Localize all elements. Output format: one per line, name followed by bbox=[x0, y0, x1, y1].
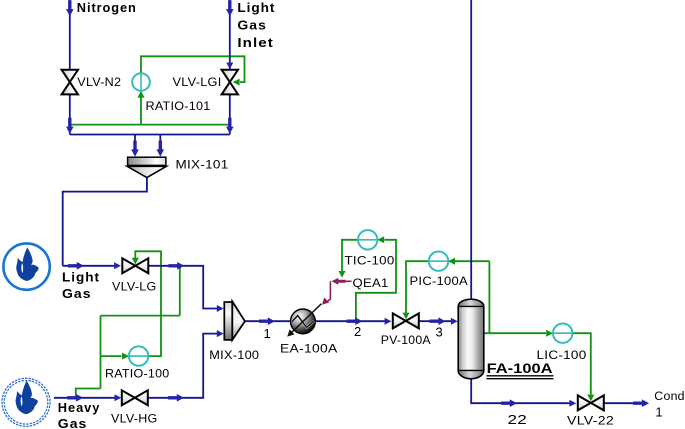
svg-text:Heavy: Heavy bbox=[58, 401, 101, 415]
wire RATIO-100 sense vertical bbox=[100, 316, 102, 389]
wire PIC-100A sense vertical bbox=[488, 261, 490, 333]
svg-text:MIX-100: MIX-100 bbox=[209, 348, 259, 362]
arrow into MIX-101 port2 bbox=[157, 141, 165, 157]
mixer MIX-100 bbox=[224, 302, 245, 340]
wire light gas inlet feed bbox=[229, 0, 231, 135]
arrow into PV-100A bbox=[385, 318, 392, 325]
controller TIC-100 bbox=[358, 230, 377, 249]
arrow into MIX-100 bottom port bbox=[217, 330, 224, 337]
wire RATIO-101 sense vertical bbox=[140, 97, 142, 125]
arrow into RATIO-101 bbox=[138, 91, 145, 98]
arrow into VLV-HG bbox=[115, 394, 122, 401]
wire QEA1 vertical+diagonal bbox=[326, 281, 330, 302]
arrow into LIC-100 bbox=[546, 330, 553, 337]
svg-text:VLV-HG: VLV-HG bbox=[111, 412, 158, 426]
arrow into VLV-LGI port bbox=[226, 63, 233, 70]
arrow nitrogen top bbox=[66, 0, 74, 16]
green arrowheads bbox=[122, 79, 594, 402]
arrow LGI into header bbox=[226, 118, 234, 134]
wire header between feeds bbox=[70, 134, 230, 136]
controller RATIO-101 bbox=[132, 73, 150, 91]
energy stream QEA1 (purple) bbox=[326, 281, 352, 302]
wire TIC-100 sense from stream 2 bbox=[356, 240, 396, 321]
arrow light gas mid bbox=[68, 262, 84, 270]
wire LIC-100 output to VLV-22 bbox=[572, 333, 590, 395]
arrow nitrogen into header bbox=[66, 118, 74, 134]
wire drop to MIX-101 port 2 bbox=[159, 135, 161, 153]
wire stream 1 bbox=[245, 320, 291, 322]
controller RATIO-100 bbox=[129, 346, 148, 365]
arrow into VLV-22 bbox=[569, 400, 576, 407]
arrow stream 22 bbox=[501, 399, 517, 407]
arrow into PV-100A bbox=[403, 313, 410, 320]
arrow QEA1 into EA-100A bbox=[319, 298, 329, 308]
wire QEA1 horizontal bbox=[344, 280, 352, 282]
svg-text:QEA1: QEA1 bbox=[353, 276, 389, 290]
heat exchanger EA-100A bbox=[285, 304, 322, 339]
arrow into VLV-LG bbox=[132, 258, 139, 265]
arrow after VLV-LG bbox=[168, 262, 184, 270]
valve VLV-LGI bbox=[222, 70, 238, 95]
wire RATIO-100 sense horizontal bbox=[101, 315, 180, 317]
svg-text:1: 1 bbox=[655, 405, 662, 420]
wire TIC-100 output to QEA1 bbox=[342, 240, 358, 271]
svg-text:FA-100A: FA-100A bbox=[487, 360, 553, 376]
arrow TIC output at QEA1 bbox=[339, 271, 346, 278]
wire RATIO-100 tap light gas bbox=[179, 266, 181, 316]
arrow QEA1 mid bbox=[332, 278, 346, 285]
svg-text:EA-100A: EA-100A bbox=[280, 342, 338, 356]
svg-text:Inlet: Inlet bbox=[237, 36, 274, 50]
controller PIC-100A bbox=[429, 252, 448, 271]
arrow into FA-100A bbox=[451, 318, 458, 325]
svg-text:PV-100A: PV-100A bbox=[381, 333, 432, 347]
arrow into VLV-22 bbox=[587, 395, 594, 402]
svg-text:Light: Light bbox=[237, 1, 275, 15]
wire vessel bottom outlet bbox=[471, 378, 570, 403]
svg-text:PIC-100A: PIC-100A bbox=[410, 274, 469, 288]
valve PV-100A bbox=[393, 313, 419, 328]
arrow into MIX-101 port1 bbox=[131, 141, 139, 157]
svg-text:VLV-N2: VLV-N2 bbox=[77, 75, 121, 89]
svg-text:Cond: Cond bbox=[654, 389, 685, 403]
wire light gas to VLV-LG bbox=[63, 265, 115, 267]
svg-text:Gas: Gas bbox=[62, 287, 92, 301]
svg-text:Light: Light bbox=[62, 271, 100, 285]
wire VLV-HG to MIX-100 bbox=[148, 334, 217, 398]
svg-text:MIX-101: MIX-101 bbox=[176, 157, 229, 171]
arrow to Cond 1 bbox=[633, 399, 649, 407]
valve VLV-LG bbox=[122, 258, 148, 273]
wire drop to MIX-101 port 1 bbox=[134, 135, 136, 153]
arrow into VLV-LG bbox=[114, 262, 121, 269]
svg-text:3: 3 bbox=[436, 324, 443, 339]
wire overhead line bbox=[470, 0, 472, 300]
arrow into VLV-LGI bbox=[233, 79, 240, 86]
valve VLV-22 bbox=[578, 395, 604, 410]
wire RATIO-100 output to VLV-LG bbox=[135, 251, 161, 356]
controller LIC-100 bbox=[553, 324, 572, 343]
svg-text:22: 22 bbox=[508, 412, 528, 427]
arrow stream 2 bbox=[347, 317, 363, 325]
wire nitrogen feed bbox=[69, 0, 71, 135]
valve VLV-HG bbox=[122, 390, 148, 405]
svg-text:VLV-22: VLV-22 bbox=[567, 414, 614, 428]
arrow into MIX-100 top port bbox=[217, 305, 224, 312]
wire PIC-100A output to PV-100A bbox=[406, 261, 429, 312]
wire VLV-LG to MIX-100 bbox=[148, 266, 217, 309]
icon heavy gas flame bbox=[2, 378, 50, 426]
wire stream 2 bbox=[315, 320, 385, 322]
svg-text:RATIO-101: RATIO-101 bbox=[146, 99, 211, 113]
svg-text:2: 2 bbox=[354, 324, 361, 339]
svg-text:RATIO-100: RATIO-100 bbox=[105, 366, 170, 380]
underline FA-100A bbox=[487, 375, 554, 377]
arrow heavy gas mid bbox=[67, 394, 83, 402]
svg-text:1: 1 bbox=[264, 326, 271, 341]
svg-text:LIC-100: LIC-100 bbox=[537, 348, 587, 362]
svg-text:TIC-100: TIC-100 bbox=[345, 254, 395, 268]
mixer MIX-101 bbox=[127, 157, 166, 177]
wire RATIO-100 tap heavy gas bbox=[76, 389, 101, 398]
svg-text:VLV-LG: VLV-LG bbox=[112, 280, 157, 294]
arrow into PIC-100A bbox=[448, 258, 455, 265]
wire RATIO-101 output loop bbox=[141, 56, 245, 82]
wire stream 3 bbox=[419, 320, 451, 322]
icon light gas flame bbox=[3, 243, 49, 289]
arrow LGI top bbox=[226, 0, 234, 16]
arrow into RATIO-100 bbox=[122, 353, 129, 360]
wire PIC-100A sense horizontal bbox=[448, 260, 489, 262]
wire LIC-100 sense from vessel bbox=[484, 332, 546, 334]
arrow stream 1 bbox=[259, 317, 275, 325]
wire heavy gas to VLV-HG bbox=[54, 397, 115, 399]
wire MIX-101 outlet bbox=[63, 178, 147, 266]
vessel FA-100A bbox=[458, 299, 484, 378]
arrow stream 3 bbox=[430, 317, 446, 325]
wire RATIO-101 sense horizontal bbox=[70, 124, 230, 126]
valve VLV-N2 bbox=[62, 70, 78, 95]
arrow into TIC-100 bbox=[377, 236, 384, 243]
arrow after VLV-HG bbox=[168, 394, 184, 402]
svg-text:VLV-LGI: VLV-LGI bbox=[173, 75, 222, 89]
wire RATIO-100 input branch bbox=[101, 355, 122, 357]
svg-text:Nitrogen: Nitrogen bbox=[77, 1, 137, 15]
wire VLV-22 to Cond 1 bbox=[604, 402, 642, 404]
green control signal net: RATIO-101 sense line bbox=[70, 56, 591, 398]
svg-text:Gas: Gas bbox=[58, 417, 88, 429]
svg-text:Gas: Gas bbox=[237, 19, 267, 33]
